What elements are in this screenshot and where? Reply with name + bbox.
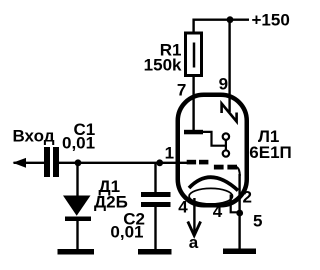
wire heater left lead to point a <box>193 198 195 232</box>
svg-text:0,01: 0,01 <box>62 133 95 152</box>
svg-text:4: 4 <box>213 202 223 221</box>
svg-text:9: 9 <box>219 75 228 94</box>
capacitor C2 <box>141 192 171 207</box>
grid 2 dashes (ray control electrode) <box>214 165 237 170</box>
svg-text:4: 4 <box>178 198 188 217</box>
svg-text:7: 7 <box>177 81 186 100</box>
svg-text:2: 2 <box>243 188 252 207</box>
node diode junction <box>75 159 82 166</box>
node junction top (+150 rail) <box>227 16 234 23</box>
diode Д1 <box>63 196 91 222</box>
fluorescent screen electrode <box>222 104 237 122</box>
wire pin 2 cathode to ground <box>238 174 240 250</box>
cathode <box>189 177 238 190</box>
wire C1 to grid <box>59 162 187 164</box>
svg-text:Вход: Вход <box>13 127 55 146</box>
wire input line (grid pin 1) <box>14 162 45 164</box>
tube envelope Л1 <box>178 95 247 206</box>
ground under diode <box>58 249 95 255</box>
svg-text:+150: +150 <box>252 11 290 30</box>
svg-text:0,01: 0,01 <box>110 222 143 241</box>
wire C2 to ground <box>154 207 156 251</box>
wire R1 bottom to anode (pin 7 lead) <box>192 76 194 131</box>
node cathode/heater junction <box>236 210 243 217</box>
svg-text:150k: 150k <box>144 56 182 75</box>
arrow to point a <box>188 222 201 236</box>
wire junction to diode <box>76 163 78 196</box>
heater <box>189 188 232 204</box>
resistor R1 <box>186 33 202 76</box>
capacitor C1 <box>44 147 59 177</box>
svg-text:5: 5 <box>253 212 262 231</box>
ground right <box>223 249 256 255</box>
wire heater right lead to cathode node <box>231 195 240 213</box>
ground under C2 <box>138 249 172 255</box>
deflection electrode circles <box>223 133 229 156</box>
wire diode to ground <box>76 221 78 250</box>
grid 1 dashes (control grid) <box>187 160 209 165</box>
svg-text:а: а <box>189 233 199 252</box>
wire anode to deflection electrode <box>202 132 226 146</box>
node C2 junction <box>156 159 163 166</box>
svg-text:6Е1П: 6Е1П <box>249 143 291 162</box>
anode plate (triode) <box>184 130 203 135</box>
wire C2 top <box>154 163 156 193</box>
wire top horizontal +150 rail <box>194 20 249 32</box>
svg-text:1: 1 <box>165 144 174 163</box>
input arrow <box>13 158 26 168</box>
wire pin 9 lead from rail to screen electrode <box>228 20 230 112</box>
wire grid2 hook to pin 2 <box>237 167 240 176</box>
